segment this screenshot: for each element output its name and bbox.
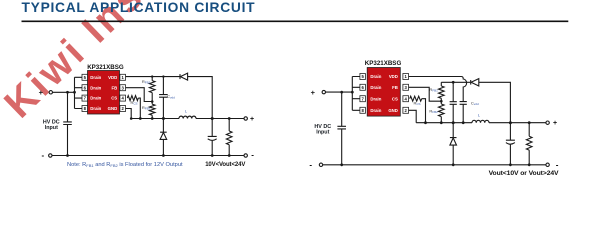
wire VDD top left (126, 77, 213, 119)
svg-text:-: - (309, 160, 312, 169)
wire sense node right (441, 81, 470, 83)
resistor Rload left (226, 119, 232, 156)
wire bottom rail right (323, 164, 546, 166)
svg-text:KP321XBSG: KP321XBSG (365, 60, 402, 67)
svg-text:FB: FB (111, 85, 117, 90)
svg-text:Cvdd: Cvdd (471, 100, 479, 106)
resistor RFB2 right (439, 101, 445, 123)
terminal circles left (49, 91, 52, 94)
svg-text:Input: Input (316, 130, 329, 136)
pin name labels U1 (90, 75, 117, 111)
svg-text:VDD: VDD (108, 75, 117, 80)
capacitor Cvdd left (159, 77, 168, 119)
svg-text:GND: GND (108, 106, 118, 111)
svg-text:GND: GND (388, 108, 398, 113)
svg-text:RFB2: RFB2 (429, 109, 438, 115)
svg-text:-: - (42, 151, 45, 160)
svg-text:RFB1: RFB1 (142, 79, 151, 85)
capacitor Cout right (506, 123, 515, 165)
svg-text:Drain: Drain (370, 108, 381, 113)
svg-text:RFB1: RFB1 (429, 87, 438, 93)
wire mid node left (131, 118, 244, 120)
resistor Rload right (526, 123, 532, 165)
svg-text:+: + (311, 88, 316, 97)
IC U2 body (367, 68, 400, 117)
svg-text:-: - (556, 161, 559, 170)
junction dots right (340, 81, 530, 166)
svg-text:L: L (478, 113, 481, 118)
svg-text:Kiwi Ins: Kiwi Ins (0, 0, 153, 126)
wire VDD top right with hop over sense node (409, 77, 467, 102)
svg-text:Cvdd: Cvdd (167, 94, 175, 100)
IC U1 body (88, 71, 120, 115)
pin boxes U1 (82, 74, 126, 111)
title rule (22, 20, 569, 22)
inductor L left (179, 116, 196, 118)
svg-text:+: + (250, 116, 254, 123)
wire mid node right (416, 122, 546, 124)
pin boxes U2 (360, 74, 409, 114)
wire GND path left (126, 109, 132, 119)
diode D2 right (freewheel) (450, 123, 457, 138)
svg-text:Input: Input (45, 125, 58, 131)
diode D1 left (VDD charge diode) (179, 74, 181, 79)
capacitor Cvdd2 right (460, 102, 467, 123)
pin numbers U1 (84, 75, 125, 111)
wire bottom rail left (52, 155, 244, 157)
inductor L right (472, 120, 489, 122)
wire input plus rail right (326, 91, 353, 93)
diode D1 right (VDD charge diode) (470, 80, 472, 85)
svg-text:Drain: Drain (370, 85, 381, 90)
resistor Rcs left (127, 96, 140, 119)
resistor RFB1 right (439, 82, 445, 101)
capacitor Cin left (63, 92, 72, 155)
svg-text:-: - (251, 151, 254, 160)
svg-text:RFB2: RFB2 (142, 105, 151, 111)
terminal circles right (322, 90, 325, 93)
wire FB jog right (409, 87, 442, 101)
svg-text:RCS: RCS (413, 101, 420, 107)
svg-text:10V<Vout<24V: 10V<Vout<24V (205, 162, 245, 168)
svg-text:VDD: VDD (389, 74, 398, 79)
diode D2 left (freewheel) (160, 119, 167, 133)
capacitor Cin right (337, 92, 346, 165)
svg-text:Drain: Drain (90, 85, 101, 90)
svg-text:Drain: Drain (90, 96, 101, 101)
wire drain bus right (352, 77, 360, 111)
wire FB jog left (126, 88, 153, 102)
component labels right (413, 87, 480, 118)
svg-text:Drain: Drain (370, 96, 381, 101)
svg-text:CS: CS (111, 96, 117, 101)
resistor RFB1 left (149, 77, 155, 102)
svg-text:Drain: Drain (370, 74, 381, 79)
wire input plus rail left (53, 91, 75, 93)
svg-text:L: L (185, 109, 188, 114)
pin numbers U2 (362, 74, 408, 113)
resistor RFB2 left (149, 102, 155, 119)
svg-text:Drain: Drain (90, 75, 101, 80)
svg-text:Drain: Drain (90, 106, 101, 111)
svg-text:+: + (39, 88, 44, 97)
svg-text:Note: RFB1 and RFB2 is Floated: Note: RFB1 and RFB2 is Floated for 12V O… (67, 162, 183, 168)
svg-text:RCS: RCS (130, 100, 137, 106)
resistor Rcs right (410, 96, 426, 123)
svg-text:CS: CS (392, 96, 398, 101)
capacitor Cout left (208, 119, 217, 156)
pin name labels U2 (370, 74, 398, 113)
capacitor Cvdd1 right (450, 82, 457, 122)
junction dots left (66, 75, 231, 157)
wire GND path right (409, 110, 417, 122)
wire drain bus left (75, 77, 83, 108)
svg-text:TYPICAL APPLICATION CIRCUIT: TYPICAL APPLICATION CIRCUIT (22, 0, 256, 15)
component labels left (130, 79, 187, 114)
svg-text:Vout<10V or Vout>24V: Vout<10V or Vout>24V (489, 170, 559, 177)
svg-text:+: + (553, 120, 557, 127)
svg-text:FB: FB (392, 85, 398, 90)
